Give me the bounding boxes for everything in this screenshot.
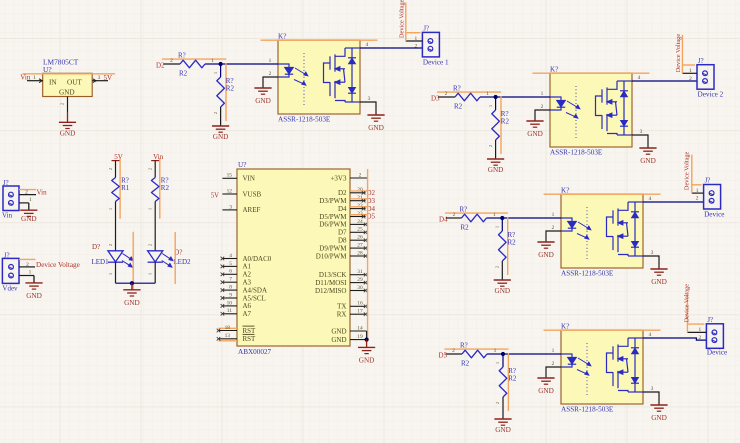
svg-text:2: 2 (689, 76, 692, 82)
wire junction down to pulldown resistor (D4) (501, 218, 503, 231)
svg-text:4: 4 (649, 332, 652, 338)
U? pin 6 A2 (222, 273, 237, 275)
svg-text:GND: GND (488, 166, 504, 174)
K? internal input LED (block 2) (550, 97, 565, 110)
svg-text:R2: R2 (461, 224, 470, 232)
orange highlight over U? top edge (22, 73, 115, 75)
svg-text:D7: D7 (338, 229, 347, 237)
wire joining LED cathodes (116, 282, 156, 284)
orange highlight along pulldown resistor (D5) (507, 354, 509, 412)
wire K? pin 3 to ground (block 4) (643, 392, 659, 405)
svg-text:11: 11 (227, 308, 232, 314)
K? internal MOSFET pair (block 4) (607, 338, 629, 392)
svg-text:2: 2 (699, 335, 702, 341)
connector J? body (Device 1) (422, 32, 439, 57)
svg-text:Vin: Vin (2, 211, 13, 219)
wire LED LED1 cathode down (115, 262, 117, 283)
orange highlight over K? top edge (block 3) (544, 193, 661, 195)
wire K? pin 3 to ground (block 3) (643, 256, 659, 269)
orange highlight over K? top edge (block 4) (544, 329, 661, 331)
pulldown resistor R? R2 (D4) (499, 231, 507, 261)
orange highlight vertical right of U? (367, 169, 369, 340)
K? isolation dashed line (block 1) (303, 53, 305, 105)
wire J? pin 1 to ground (19, 275, 34, 277)
svg-text:ASSR-1218-503E: ASSR-1218-503E (278, 116, 331, 124)
U? pin 26 D8 (350, 239, 366, 241)
svg-text:GND: GND (538, 387, 554, 395)
U? pin 5 A1 (222, 265, 237, 267)
svg-text:R2: R2 (226, 85, 235, 93)
U? pin 9 A5/SCL (222, 297, 237, 299)
svg-text:31: 31 (357, 269, 363, 275)
series resistor R? R2 (D3) (455, 93, 480, 101)
svg-text:2: 2 (453, 212, 456, 218)
junction dot LED gnd (130, 281, 134, 285)
svg-text:Device 1: Device 1 (423, 58, 449, 66)
ground at K? pin 2 (block 3) (537, 241, 554, 243)
svg-text:8: 8 (229, 285, 232, 291)
svg-text:2: 2 (488, 145, 493, 147)
svg-text:D2: D2 (156, 62, 165, 70)
orange highlight along pulldown resistor (D2) (225, 64, 227, 122)
K? isolation dashed line (block 4) (586, 343, 588, 395)
svg-text:4: 4 (638, 75, 641, 81)
svg-text:1: 1 (495, 226, 500, 228)
svg-text:D3/PWM: D3/PWM (319, 197, 347, 205)
optocoupler relay K? (block 4) body ASSR-1218-503E (561, 330, 643, 404)
svg-text:2: 2 (60, 103, 65, 105)
svg-text:D2: D2 (338, 189, 347, 197)
svg-text:2: 2 (108, 168, 113, 170)
svg-text:13: 13 (225, 333, 231, 339)
svg-text:2: 2 (495, 402, 500, 404)
ground below pulldown (D2) (212, 125, 229, 127)
svg-text:D4: D4 (439, 216, 448, 224)
wire K? pin 4 to connector (Device) (643, 201, 704, 203)
U? pin 18 RST (active low) (219, 330, 238, 332)
wire K? pin 4 to connector (Device 2) (632, 80, 697, 82)
svg-text:GND: GND (255, 97, 271, 105)
U? pin 15 VIN (222, 177, 237, 179)
orange highlight along LED2 (174, 232, 176, 284)
U? pin 28 D10/PWM (350, 255, 366, 257)
wire pulldown resistor to ground (D3) (495, 140, 497, 159)
svg-text:3: 3 (229, 204, 232, 210)
svg-text:7: 7 (229, 277, 232, 283)
ground at K? pin 2 (block 1) (254, 87, 271, 89)
svg-text:GND: GND (651, 278, 667, 286)
wire U? pin 2 down (67, 97, 69, 113)
svg-text:LED2: LED2 (173, 258, 191, 266)
wire junction to K? pin 1 (D2) (221, 63, 278, 65)
svg-text:2: 2 (269, 71, 272, 77)
svg-text:1: 1 (552, 212, 555, 218)
U? pin 29 D11/MOSI (350, 282, 366, 284)
svg-text:U?: U? (43, 65, 52, 74)
ground below U? (366, 340, 368, 348)
svg-text:LED1: LED1 (92, 258, 110, 266)
U? pin 27 D9/PWM (350, 247, 366, 249)
svg-text:ASSR-1218-503E: ASSR-1218-503E (561, 406, 614, 414)
svg-text:R2: R2 (161, 184, 170, 192)
optocoupler relay K? (block 2) body ASSR-1218-503E (550, 73, 632, 147)
svg-text:2: 2 (25, 190, 28, 196)
svg-text:R2: R2 (508, 375, 517, 383)
connector J? (Vdev) body (2, 258, 19, 283)
svg-text:1: 1 (269, 58, 272, 64)
svg-text:5V: 5V (114, 153, 123, 161)
svg-text:A6: A6 (243, 302, 252, 310)
svg-text:D11/MOSI: D11/MOSI (315, 279, 347, 287)
svg-text:23: 23 (357, 211, 363, 217)
svg-text:2: 2 (415, 44, 418, 50)
U? pin 13 RST (active low) (219, 338, 238, 340)
orange Device Voltage riser (Device) (686, 294, 688, 333)
K? internal MOSFET pair (block 3) (607, 202, 629, 256)
wire junction to K? pin 1 (D4) (502, 217, 561, 219)
svg-text:R?: R? (178, 52, 186, 60)
wire resistor to junction (D2) (205, 63, 221, 65)
junction dot (D2) (219, 62, 223, 66)
svg-text:K?: K? (278, 33, 286, 41)
svg-text:Device Voltage: Device Voltage (398, 0, 405, 38)
U? pin 20 D2 (350, 192, 366, 194)
svg-text:Device Voltage: Device Voltage (683, 151, 690, 190)
orange Device Voltage riser (Device 2) (681, 35, 683, 74)
svg-text:Vin: Vin (153, 153, 164, 161)
wire 5V to resistor R1 (115, 161, 117, 178)
svg-text:VIN: VIN (243, 175, 255, 183)
svg-text:4: 4 (649, 196, 652, 202)
svg-text:Device Voltage: Device Voltage (675, 34, 682, 73)
wire D4 to series resistor (446, 217, 462, 219)
orange highlight along pulldown resistor (D3) (500, 97, 502, 155)
K? isolation dashed line (block 3) (586, 207, 588, 259)
ground at K? pin 3 (block 4) (650, 404, 667, 406)
svg-text:27: 27 (357, 243, 363, 249)
wire K? pin 4 to connector (Device 1) (360, 47, 422, 49)
connector J? body (Device) (704, 185, 721, 210)
svg-text:3: 3 (98, 75, 101, 81)
svg-text:2: 2 (26, 262, 29, 268)
svg-text:1: 1 (108, 273, 113, 275)
orange highlight over K? top edge (block 1) (261, 39, 378, 41)
wire pulldown resistor to ground (D4) (501, 261, 503, 280)
orange Device Voltage riser (Device) (691, 155, 693, 194)
orange highlight over resistor row D2 (162, 58, 226, 60)
svg-text:AREF: AREF (243, 206, 261, 214)
svg-text:D5/PWM: D5/PWM (319, 213, 347, 221)
svg-text:GND: GND (651, 414, 667, 422)
ground at K? pin 2 (block 4) (537, 377, 554, 379)
ground at K? pin 3 (block 3) (650, 268, 667, 270)
U? pin 7 A3 (222, 281, 237, 283)
svg-text:18: 18 (225, 325, 231, 331)
svg-text:ASSR-1218-503E: ASSR-1218-503E (561, 270, 614, 278)
K? internal body diodes (block 1) (345, 48, 360, 102)
svg-text:Vin: Vin (37, 188, 48, 196)
U? pin 25 D7 (350, 231, 366, 233)
K? isolation dashed line (block 2) (575, 86, 577, 138)
series resistor R? R2 (D4) (462, 214, 487, 222)
svg-text:D6/PWM: D6/PWM (319, 221, 347, 229)
svg-text:R1: R1 (121, 184, 130, 192)
svg-text:1: 1 (495, 362, 500, 364)
orange highlight over resistor row D3 (437, 91, 501, 93)
microcontroller U? ABX00027 body (237, 169, 350, 346)
ground below pulldown (D3) (487, 158, 504, 160)
wire junction down to pulldown resistor (D5) (502, 354, 504, 367)
wire connector pin 1 to Device Voltage (Device 1) (406, 40, 423, 42)
svg-text:1: 1 (552, 348, 555, 354)
svg-text:D5: D5 (439, 352, 448, 360)
K? internal input LED (block 3) (561, 218, 576, 231)
junction dot (D3) (494, 95, 498, 99)
K? internal light arrows (block 2) (566, 101, 580, 118)
svg-text:1: 1 (494, 348, 497, 354)
svg-text:25: 25 (357, 227, 363, 233)
svg-text:A4/SDA: A4/SDA (243, 286, 268, 294)
svg-text:2: 2 (170, 58, 173, 64)
svg-text:K?: K? (561, 323, 569, 331)
svg-text:R2: R2 (454, 103, 463, 111)
orange highlight along LED1 / gnd stem (132, 232, 134, 290)
wire J? pin 2 to Vin (19, 194, 36, 196)
svg-text:2: 2 (552, 361, 555, 367)
svg-text:2: 2 (696, 196, 699, 202)
ground at J? pin 1 (28, 203, 30, 210)
svg-text:R2: R2 (179, 70, 188, 78)
wire K? pin 2 to ground (block 1) (263, 77, 278, 88)
U? pin 31 D13/SCK (350, 274, 366, 276)
svg-text:1: 1 (148, 273, 153, 275)
svg-text:U?: U? (238, 161, 246, 169)
K? internal MOSFET pair (block 2) (596, 81, 618, 135)
svg-text:Device: Device (704, 211, 724, 219)
svg-text:1: 1 (211, 58, 214, 64)
svg-text:D?: D? (92, 243, 100, 251)
wire resistor R2 to LED LED2 (154, 202, 156, 251)
wire J? pin 1 to ground (19, 202, 29, 204)
junction dot U? GND (365, 338, 369, 342)
svg-text:R2: R2 (508, 239, 517, 247)
wire K? pin 2 to ground (block 2) (535, 110, 550, 121)
wire K? pin 2 to ground (block 4) (546, 367, 561, 378)
wire LED LED2 cathode down (154, 262, 156, 283)
svg-text:Device 2: Device 2 (698, 91, 724, 99)
ground at K? pin 3 (block 1) (367, 114, 384, 116)
svg-text:J?: J? (707, 317, 713, 324)
series resistor R? R2 (D2) (180, 60, 205, 68)
wire K? pin 3 to ground (block 2) (632, 135, 648, 148)
svg-text:GND: GND (538, 251, 554, 259)
svg-text:GND: GND (495, 287, 511, 295)
U? pin 2 +3V3 (350, 177, 367, 179)
svg-text:K?: K? (561, 187, 569, 195)
svg-text:RST: RST (243, 335, 257, 343)
svg-text:2: 2 (445, 91, 448, 97)
svg-text:2: 2 (148, 168, 153, 170)
svg-text:5: 5 (229, 261, 232, 267)
svg-text:RX: RX (337, 311, 347, 319)
U? pin 30 D12/MISO (350, 290, 366, 292)
svg-text:2: 2 (148, 244, 153, 246)
svg-text:R?: R? (460, 206, 468, 214)
svg-text:1: 1 (148, 208, 153, 210)
svg-text:10: 10 (227, 300, 233, 306)
svg-text:15: 15 (227, 173, 233, 179)
svg-text:4: 4 (229, 253, 232, 259)
U? pin 3 AREF (222, 209, 237, 211)
svg-text:ABX00027: ABX00027 (238, 348, 272, 356)
ground below LEDs (131, 283, 133, 290)
svg-text:1: 1 (29, 197, 32, 203)
resistor R? R2 vertical (151, 178, 159, 202)
orange highlight on J? pin 2 wire (19, 189, 36, 191)
K? internal MOSFET pair (block 1) (324, 48, 346, 102)
wire from U? pin 3 (OUT) (92, 80, 108, 82)
wire pulldown resistor to ground (D5) (502, 397, 504, 419)
svg-text:D13/SCK: D13/SCK (319, 271, 347, 279)
K? internal body diodes (block 3) (628, 202, 643, 256)
connector J? body (Device 2) (697, 65, 714, 90)
svg-text:30: 30 (357, 285, 363, 291)
wire Vin to resistor R2 (154, 161, 156, 178)
svg-text:3: 3 (651, 386, 654, 392)
svg-text:VUSB: VUSB (243, 190, 262, 198)
optocoupler relay K? (block 1) body ASSR-1218-503E (278, 40, 360, 114)
svg-text:GND: GND (331, 336, 346, 344)
svg-text:Device Voltage: Device Voltage (36, 261, 80, 269)
svg-text:3: 3 (651, 250, 654, 256)
U? pin 14 GND (350, 330, 367, 332)
svg-text:GND: GND (359, 356, 375, 364)
orange highlight horiz at connector (Device 1) (406, 32, 421, 34)
svg-text:A7: A7 (243, 310, 252, 318)
svg-text:14: 14 (357, 325, 363, 331)
svg-text:GND: GND (59, 88, 75, 96)
svg-text:1: 1 (488, 105, 493, 107)
U? pin 21 D3/PWM (350, 200, 366, 202)
svg-text:5V: 5V (104, 74, 113, 82)
orange highlight along pulldown resistor (D4) (507, 218, 509, 276)
svg-text:1: 1 (486, 91, 489, 97)
svg-text:+3V3: +3V3 (330, 174, 347, 182)
K? internal input LED (block 4) (561, 354, 576, 367)
svg-text:1: 1 (29, 270, 32, 276)
svg-text:9: 9 (229, 292, 232, 298)
svg-text:GND: GND (331, 327, 346, 335)
svg-text:J?: J? (705, 178, 711, 185)
svg-text:A1: A1 (243, 263, 252, 271)
svg-text:20: 20 (357, 187, 363, 193)
wire K? pin 3 to ground (block 1) (360, 102, 376, 115)
svg-text:21: 21 (357, 195, 363, 201)
U? pin 22 D4 (350, 208, 366, 210)
svg-text:28: 28 (357, 250, 363, 256)
U? pin 16 TX (350, 305, 366, 307)
svg-text:R?: R? (460, 342, 468, 350)
wire resistor R1 to LED LED1 (115, 202, 117, 251)
U? pin 10 A6 (222, 305, 237, 307)
wire resistor to junction (D5) (487, 353, 503, 355)
wire J? pin 2 to Device Voltage (19, 266, 35, 268)
svg-text:RST: RST (243, 327, 257, 335)
svg-text:D10/PWM: D10/PWM (316, 252, 348, 260)
wire connector pin 1 to Device Voltage (Device) (687, 331, 706, 333)
wire K? pin 2 to ground (block 3) (546, 231, 561, 242)
svg-text:4: 4 (366, 42, 369, 48)
svg-text:2: 2 (552, 225, 555, 231)
pulldown resistor R? R2 (D3) (492, 110, 500, 140)
U? pin 11 A7 (222, 313, 237, 315)
svg-text:Device: Device (707, 348, 727, 356)
svg-text:GND: GND (368, 124, 384, 132)
pulldown resistor R? R2 (D2) (217, 77, 225, 107)
ground below pulldown (D5) (494, 418, 511, 420)
K? internal input LED (block 1) (278, 64, 293, 77)
pulldown resistor R? R2 (D5) (499, 367, 507, 397)
svg-text:Vdev: Vdev (2, 284, 18, 292)
svg-text:D4: D4 (338, 205, 347, 213)
svg-text:1: 1 (213, 72, 218, 74)
svg-text:29: 29 (357, 277, 363, 283)
svg-text:D12/MISO: D12/MISO (315, 287, 347, 295)
svg-text:17: 17 (357, 309, 363, 315)
svg-text:16: 16 (357, 301, 363, 307)
optocoupler relay K? (block 3) body ASSR-1218-503E (561, 194, 643, 268)
svg-text:A2: A2 (243, 271, 252, 279)
svg-text:2: 2 (452, 348, 455, 354)
orange highlight horiz at connector (Device) (692, 184, 702, 186)
svg-text:3: 3 (368, 96, 371, 102)
svg-text:ASSR-1218-503E: ASSR-1218-503E (550, 149, 603, 157)
svg-text:1: 1 (108, 208, 113, 210)
svg-text:A5/SCL: A5/SCL (243, 294, 266, 302)
ground below U? (67, 112, 69, 122)
orange highlight along resistor R1 (119, 158, 121, 219)
junction dot (D5) (501, 352, 505, 356)
wire connector pin 1 to Device Voltage (Device) (692, 192, 704, 194)
svg-text:GND: GND (124, 299, 140, 307)
svg-text:GND: GND (60, 129, 76, 137)
svg-text:R?: R? (453, 85, 461, 93)
U? pin 17 RX (350, 313, 366, 315)
U? pin 4 A0/DAC0 (222, 258, 237, 260)
ground at J? pin 1 (33, 276, 35, 283)
orange highlight over resistor row D5 (445, 348, 509, 350)
svg-text:2: 2 (359, 172, 362, 178)
svg-text:22: 22 (357, 203, 363, 209)
connector J? (Vin input) body (3, 186, 19, 211)
svg-text:J?: J? (423, 26, 429, 33)
wire K? pin 4 to connector (Device) (643, 338, 706, 340)
orange highlight over resistor row D4 (445, 212, 508, 214)
svg-text:IN: IN (49, 79, 57, 87)
ground below pulldown (D4) (494, 279, 511, 281)
orange highlight horiz at connector (Device 2) (682, 64, 695, 66)
svg-text:24: 24 (357, 219, 363, 225)
svg-text:TX: TX (337, 303, 346, 311)
wire pulldown resistor to ground (D2) (220, 107, 222, 126)
wire junction to K? pin 1 (D3) (496, 96, 550, 98)
svg-text:R2: R2 (501, 118, 510, 126)
wire connector pin 1 to Device Voltage (Device 2) (682, 72, 697, 74)
svg-text:D3: D3 (431, 95, 440, 103)
orange highlight along resistor R2 (159, 158, 161, 219)
U? pin 12 VUSB (222, 193, 237, 195)
wire joining GND pins (366, 331, 368, 340)
